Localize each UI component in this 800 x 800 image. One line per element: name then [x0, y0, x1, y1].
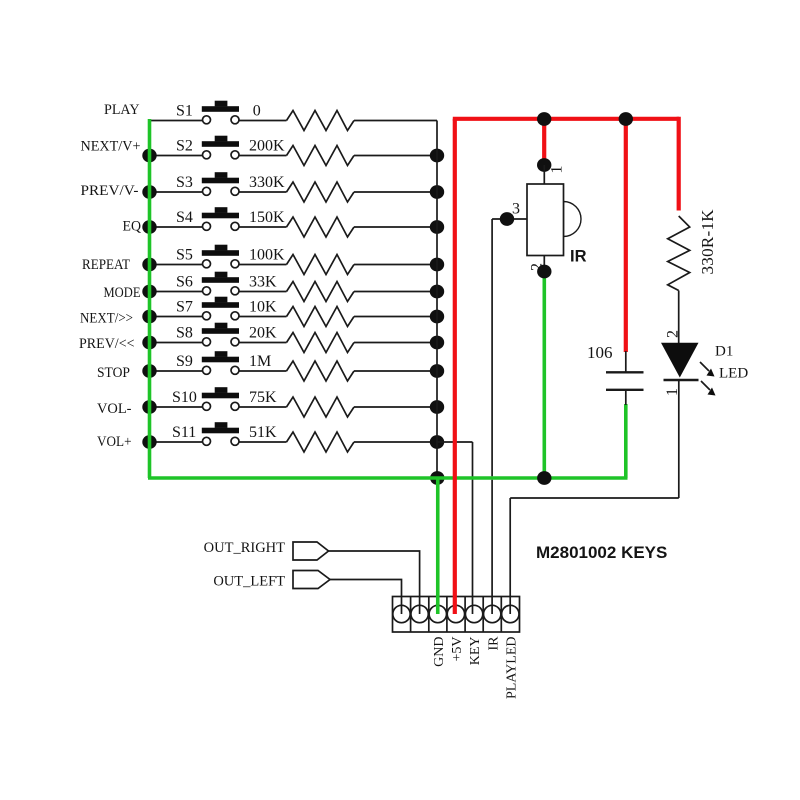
- wire S5 to resistor: [239, 264, 287, 266]
- svg-text:S6: S6: [176, 273, 193, 290]
- wire S2 to resistor: [239, 155, 287, 157]
- wire S9 resistor to bus: [354, 370, 437, 372]
- wire red to capacitor: [624, 119, 628, 352]
- resistor R3 value 330K: [249, 174, 354, 202]
- svg-text:STOP: STOP: [97, 365, 130, 381]
- junction bus row S7: [430, 310, 444, 324]
- junction bus row S10: [430, 400, 444, 414]
- svg-text:OUT_RIGHT: OUT_RIGHT: [204, 540, 285, 556]
- wire OUT_LEFT to connector pin 1: [330, 580, 402, 615]
- svg-text:330K: 330K: [249, 174, 285, 191]
- svg-text:S4: S4: [176, 209, 193, 226]
- svg-text:OUT_LEFT: OUT_LEFT: [213, 573, 285, 589]
- junction green bus row STOP: [142, 364, 156, 378]
- wire red to resistor 330R-1K: [677, 117, 681, 211]
- wire row S10 left stub: [150, 406, 204, 408]
- junction bus row S5: [430, 258, 444, 272]
- wire S8 to resistor: [239, 342, 287, 344]
- resistor R7 value 10K: [249, 298, 354, 326]
- svg-text:PLAY: PLAY: [104, 102, 140, 118]
- wire S10 resistor to bus: [354, 406, 437, 408]
- svg-text:VOL+: VOL+: [97, 434, 132, 450]
- svg-text:MODE: MODE: [104, 285, 141, 301]
- svg-text:2: 2: [665, 330, 682, 338]
- wire +5V red horizontal top: [453, 117, 679, 121]
- wire row S3 left stub: [150, 191, 204, 193]
- wire S3 to resistor: [239, 191, 287, 193]
- resistor R12 330R-1K: [668, 209, 717, 291]
- wire row S2 left stub: [150, 155, 204, 157]
- wire S1 resistor to bus: [354, 120, 437, 122]
- junction green bus row EQ: [142, 220, 156, 234]
- switch S9: [176, 351, 239, 374]
- wire S1 to resistor: [239, 120, 287, 122]
- switch S2: [176, 136, 239, 159]
- svg-text:S11: S11: [172, 424, 196, 441]
- wire S3 resistor to bus: [354, 191, 437, 193]
- IR receiver U1 body: [527, 184, 581, 256]
- junction IR pin 2: [537, 265, 551, 279]
- svg-text:S3: S3: [176, 174, 193, 191]
- svg-text:GND: GND: [432, 637, 447, 667]
- wire LED cathode down: [678, 380, 680, 498]
- wire IR pin1 stub: [543, 165, 545, 184]
- svg-text:200K: 200K: [249, 137, 285, 154]
- resistor R1 value 0: [253, 102, 354, 130]
- switch S7: [176, 297, 239, 320]
- junction green bus row VOL-: [142, 400, 156, 414]
- junction red at IR branch: [537, 112, 551, 126]
- junction bus row S2: [430, 149, 444, 163]
- wire capacitor bottom stub: [625, 390, 627, 405]
- wire row S9 left stub: [150, 370, 204, 372]
- resistor R4 value 150K: [249, 209, 354, 237]
- svg-text:NEXT/V+: NEXT/V+: [81, 139, 141, 155]
- svg-text:VOL-: VOL-: [97, 401, 132, 417]
- capacitor C1 bottom plate: [606, 389, 644, 391]
- wire S6 to resistor: [239, 291, 287, 293]
- junction bus row S6: [430, 285, 444, 299]
- svg-text:PREV/V-: PREV/V-: [81, 183, 139, 199]
- wire S4 to resistor: [239, 226, 287, 228]
- svg-text:IR: IR: [570, 248, 587, 266]
- svg-text:10K: 10K: [249, 298, 277, 315]
- svg-text:S5: S5: [176, 246, 193, 263]
- pin 3 stub wire: [492, 218, 527, 220]
- junction IR pin 1: [537, 158, 551, 172]
- junction green bus row PREV/&lt;&lt;: [142, 336, 156, 350]
- junction green at IR pin2 drop: [537, 471, 551, 485]
- junction bus row S4: [430, 220, 444, 234]
- svg-text:EQ: EQ: [123, 219, 142, 235]
- svg-text:1: 1: [549, 166, 566, 174]
- svg-text:20K: 20K: [249, 324, 277, 341]
- svg-text:S8: S8: [176, 324, 193, 341]
- wire IR pin2 green vertical: [542, 271, 546, 478]
- svg-text:51K: 51K: [249, 424, 277, 441]
- switch S5: [176, 245, 239, 268]
- wire S4 resistor to bus: [354, 226, 437, 228]
- svg-text:330R-1K: 330R-1K: [698, 209, 717, 275]
- resistor R2 value 200K: [249, 137, 354, 165]
- wire row S5 left stub: [150, 264, 204, 266]
- switch S6: [176, 272, 239, 295]
- wire S8 resistor to bus: [354, 342, 437, 344]
- wire LED to PLAYLED horizontal: [510, 497, 679, 499]
- svg-text:D1: D1: [715, 344, 733, 360]
- wire row S8 left stub: [150, 342, 204, 344]
- wire IR pin3 to connector pin 6: [491, 219, 493, 476]
- switch S8: [176, 323, 239, 346]
- LED D1 body: [661, 343, 699, 380]
- svg-text:S9: S9: [176, 353, 193, 370]
- switch S4: [176, 207, 239, 230]
- wire S10 to resistor: [239, 406, 287, 408]
- wire row S7 left stub: [150, 316, 204, 318]
- capacitor C1 top plate: [606, 371, 644, 373]
- wire capacitor top stub: [625, 351, 627, 372]
- wire row S6 left stub: [150, 291, 204, 293]
- svg-text:106: 106: [587, 343, 613, 362]
- svg-text:100K: 100K: [249, 246, 285, 263]
- wire KEY bus vertical (black): [436, 121, 438, 479]
- wire S11 resistor to bus: [354, 441, 437, 443]
- wire +5V red vertical to connector pin 4: [453, 119, 457, 614]
- OUT_LEFT flag symbol: [293, 571, 330, 589]
- svg-text:1M: 1M: [249, 353, 271, 370]
- junction bus row S9: [430, 364, 444, 378]
- switch S1: [176, 101, 239, 124]
- junction bus row S3: [430, 185, 444, 199]
- junction IR pin 3: [500, 212, 514, 226]
- wire row S1 left stub: [150, 120, 204, 122]
- svg-text:75K: 75K: [249, 389, 277, 406]
- wire KEY to connector pin 5: [472, 442, 474, 614]
- junction bus row S11: [430, 435, 444, 449]
- wire S6 resistor to bus: [354, 291, 437, 293]
- wire GND green bus horizontal bottom: [148, 476, 628, 480]
- svg-text:PREV/<<: PREV/<<: [79, 336, 135, 352]
- resistor R11 value 51K: [249, 424, 354, 452]
- switch S11: [172, 422, 239, 445]
- wire S11 to resistor: [239, 441, 287, 443]
- svg-text:3: 3: [512, 201, 520, 218]
- resistor R9 value 1M: [249, 353, 354, 381]
- wire GND green drop to connector pin 3: [436, 478, 440, 614]
- svg-text:33K: 33K: [249, 273, 277, 290]
- svg-text:+5V: +5V: [450, 637, 465, 662]
- wire S7 resistor to bus: [354, 316, 437, 318]
- LED light arrow 1: [700, 362, 715, 377]
- wire S9 to resistor: [239, 370, 287, 372]
- resistor R8 value 20K: [249, 324, 354, 352]
- wire S11 to KEY pin horizontal: [437, 441, 473, 443]
- junction green bus row MODE: [142, 285, 156, 299]
- junction bus row S8: [430, 336, 444, 350]
- wire S7 to resistor: [239, 316, 287, 318]
- svg-text:IR: IR: [486, 636, 501, 651]
- connector J1 body: [393, 597, 520, 633]
- svg-text:LED: LED: [719, 366, 748, 382]
- wire S2 resistor to bus: [354, 155, 437, 157]
- junction GND bus meets green: [430, 471, 444, 485]
- svg-text:PLAYLED: PLAYLED: [504, 637, 519, 700]
- OUT_RIGHT flag symbol: [293, 542, 329, 560]
- wire row S11 left stub: [150, 441, 204, 443]
- junction green bus row REPEAT: [142, 258, 156, 272]
- junction green bus row NEXT/&gt;&gt;: [142, 310, 156, 324]
- junction green bus row NEXT/V+: [142, 149, 156, 163]
- wire OUT_RIGHT to connector pin 2: [329, 551, 420, 614]
- wire S5 resistor to bus: [354, 264, 437, 266]
- junction green bus row PREV/V-: [142, 185, 156, 199]
- junction red at capacitor branch: [619, 112, 633, 126]
- junction green bus row VOL+: [142, 435, 156, 449]
- svg-text:S1: S1: [176, 102, 193, 119]
- svg-text:150K: 150K: [249, 209, 285, 226]
- wire resistor to LED: [678, 291, 680, 344]
- wire GND green bus vertical left: [148, 119, 152, 478]
- svg-text:0: 0: [253, 102, 261, 119]
- svg-text:2: 2: [529, 263, 546, 271]
- svg-text:S7: S7: [176, 298, 193, 315]
- switch S3: [176, 172, 239, 195]
- svg-text:NEXT/>>: NEXT/>>: [80, 311, 133, 327]
- resistor R5 value 100K: [249, 246, 354, 274]
- svg-text:S10: S10: [172, 389, 197, 406]
- LED light arrow 2: [701, 381, 716, 396]
- svg-text:S2: S2: [176, 137, 193, 154]
- wire row S4 left stub: [150, 226, 204, 228]
- wire IR pin2 stub: [543, 256, 545, 273]
- svg-text:KEY: KEY: [468, 637, 483, 666]
- svg-text:REPEAT: REPEAT: [82, 257, 130, 273]
- resistor R10 value 75K: [249, 389, 354, 417]
- wire red to IR pin1: [542, 119, 546, 163]
- wire PLAYLED to connector pin 7: [509, 498, 511, 614]
- resistor R6 value 33K: [249, 273, 354, 301]
- switch S10: [172, 387, 239, 410]
- wire capacitor bottom green vertical: [624, 404, 628, 478]
- svg-text:M2801002 KEYS: M2801002 KEYS: [536, 543, 667, 562]
